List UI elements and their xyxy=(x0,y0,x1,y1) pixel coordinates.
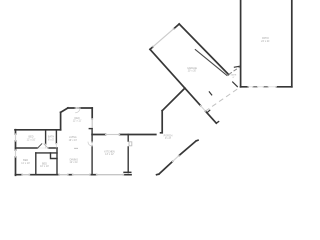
wall den chamfer xyxy=(61,108,68,112)
window garage northwest xyxy=(153,29,174,47)
svg-text:12' x 11': 12' x 11' xyxy=(73,120,82,123)
svg-text:11' x 10': 11' x 10' xyxy=(21,162,30,165)
wall dining left xyxy=(91,130,93,174)
window left wall xyxy=(15,134,17,157)
window garage southwest xyxy=(201,106,206,112)
door leaf hall xyxy=(38,144,42,148)
svg-text:13' x 12': 13' x 12' xyxy=(105,153,114,156)
window porch diagonal xyxy=(173,156,180,162)
tick wall end foot xyxy=(216,122,218,124)
wall bottom edge with windows xyxy=(16,174,132,176)
wall garage northwest ticks xyxy=(150,24,179,49)
svg-text:9' x 8': 9' x 8' xyxy=(165,137,172,140)
label living room xyxy=(69,137,78,142)
door gaps bed1 south xyxy=(38,147,49,149)
wall garage northeast xyxy=(179,24,228,75)
door patio bottom dashes xyxy=(253,86,268,88)
door den right xyxy=(91,119,93,128)
label bath upper xyxy=(48,136,55,142)
fence dashed to patio xyxy=(206,87,241,111)
label bed2 xyxy=(21,159,30,165)
windows bottom edge xyxy=(22,174,124,176)
svg-text:GARAGE: GARAGE xyxy=(187,67,197,70)
wall garage inner parallel xyxy=(195,50,227,76)
wall interior bed1 south xyxy=(16,147,58,149)
dots living fixture xyxy=(75,147,78,149)
tick garage opening xyxy=(209,92,211,95)
wall kitchen north xyxy=(92,134,156,136)
svg-text:GATE: GATE xyxy=(231,74,237,77)
wall porch diagonal xyxy=(157,140,198,175)
door leaf hall2 xyxy=(44,144,48,148)
wall interior bed2 right xyxy=(56,148,58,175)
wall entry vertical xyxy=(161,111,163,133)
wall dining right xyxy=(127,135,129,173)
window dining right xyxy=(129,142,132,146)
label bed1 xyxy=(27,136,36,142)
wall patio right xyxy=(291,0,293,87)
wall interior bed1 right xyxy=(45,130,47,144)
door dining left xyxy=(91,142,93,146)
label kitchen xyxy=(104,150,115,156)
wall den top xyxy=(68,107,92,109)
wall closet nook xyxy=(51,153,58,159)
wall garage southwest long xyxy=(150,49,216,123)
label patio xyxy=(261,37,270,43)
wall den left xyxy=(60,112,62,130)
wall interior bed2 left xyxy=(35,153,37,175)
wall den right xyxy=(91,108,93,119)
label dining xyxy=(70,158,79,164)
wall bath right xyxy=(55,130,57,144)
label gate xyxy=(231,74,237,80)
wall interior bath south xyxy=(36,152,57,154)
door den top xyxy=(75,107,80,109)
label porch xyxy=(164,134,173,140)
door arc dining xyxy=(88,142,92,146)
label garage xyxy=(187,67,197,73)
opening patio bottom xyxy=(248,86,277,88)
door bath right xyxy=(55,144,57,149)
svg-text:12' x 10': 12' x 10' xyxy=(27,138,36,141)
wall left exterior xyxy=(15,130,17,176)
door arc den xyxy=(75,108,80,113)
fence dashed garage to patio xyxy=(229,67,240,74)
opening kitchen north xyxy=(106,134,120,136)
svg-text:12' x 11': 12' x 11' xyxy=(70,161,79,164)
svg-text:19' x 13': 19' x 13' xyxy=(69,140,78,142)
wall patio bottom xyxy=(241,86,292,88)
wall patio left xyxy=(240,0,242,87)
door bed1 right xyxy=(45,144,47,148)
wall top edge left xyxy=(15,129,61,131)
svg-text:10' x 10': 10' x 10' xyxy=(40,165,49,168)
svg-text:8' x 5': 8' x 5' xyxy=(48,138,55,141)
foot dining right xyxy=(124,171,131,173)
label bed3 xyxy=(40,162,49,168)
svg-text:20' x 20': 20' x 20' xyxy=(188,71,197,73)
tick gate swing xyxy=(233,66,240,86)
svg-text:24' x 21': 24' x 21' xyxy=(261,40,270,43)
label den xyxy=(73,117,82,123)
tick garage door jamb xyxy=(208,110,210,112)
wall entry diagonal xyxy=(162,88,185,111)
